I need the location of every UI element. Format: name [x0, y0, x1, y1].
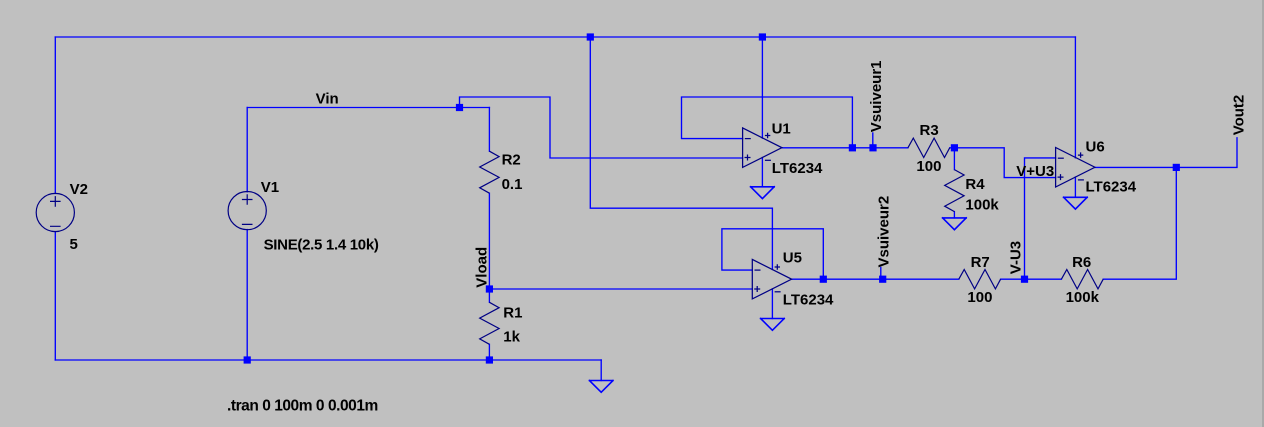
- wire U1 output to R3: [782, 147, 908, 149]
- ground R4: [943, 218, 967, 230]
- svg-text:V1: V1: [261, 179, 279, 196]
- svg-text:100: 100: [916, 158, 941, 175]
- svg-text:Vout2: Vout2: [1231, 95, 1248, 136]
- ground U1: [751, 187, 775, 199]
- resistor R3: [908, 138, 950, 157]
- node top rail junction U5 supply: [587, 33, 594, 40]
- node Vin junction: [456, 104, 463, 111]
- node U6 output junction: [1173, 164, 1180, 171]
- svg-text:100: 100: [967, 289, 992, 306]
- svg-text:U1: U1: [772, 120, 791, 137]
- op-amp U1: [743, 128, 782, 167]
- svg-text:V2: V2: [70, 181, 88, 198]
- node V-U3 junction: [1021, 276, 1028, 283]
- svg-text:U5: U5: [783, 249, 802, 266]
- wire R3 right lead to node: [950, 148, 1056, 178]
- svg-text:Vsuiveur2: Vsuiveur2: [876, 196, 893, 268]
- wire R2 bottom lead to Vload: [488, 193, 490, 289]
- wire U5 output to R7: [792, 278, 959, 280]
- svg-text:LT6234: LT6234: [1086, 179, 1137, 196]
- wire R1 bottom lead: [488, 344, 490, 360]
- svg-text:5: 5: [70, 236, 78, 253]
- wire Vin to U1 plus input: [460, 97, 743, 158]
- wire top supply rail: [55, 36, 1075, 38]
- node U5 output feedback junction: [820, 276, 827, 283]
- ground main rail: [589, 381, 613, 393]
- wire R1 top lead: [488, 289, 490, 302]
- wire R6 right lead up to U6 output: [1103, 167, 1176, 279]
- wire ground rail jog: [600, 360, 602, 381]
- svg-text:.tran 0 100m 0 0.001m: .tran 0 100m 0 0.001m: [227, 398, 378, 415]
- wire node V-U3 to R6: [1025, 278, 1062, 280]
- resistor R6: [1061, 270, 1103, 289]
- wire Vload row to U5 plus input: [489, 288, 752, 290]
- wire bottom ground rail: [55, 359, 601, 361]
- wire Vsuiveur1 label tick: [872, 133, 874, 148]
- wire V1 bottom lead: [246, 230, 248, 361]
- svg-text:Vsuiveur1: Vsuiveur1: [868, 60, 885, 132]
- wire U6 V+ pin: [1074, 37, 1076, 158]
- svg-text:0.1: 0.1: [502, 176, 523, 193]
- svg-text:LT6234: LT6234: [783, 291, 834, 308]
- wire R4 top lead: [953, 148, 955, 170]
- svg-text:R7: R7: [971, 254, 990, 271]
- wire U5 V+ supply route: [590, 37, 772, 269]
- svg-text:R6: R6: [1072, 254, 1091, 271]
- svg-text:100k: 100k: [965, 197, 999, 214]
- svg-text:V-U3: V-U3: [1008, 241, 1025, 274]
- wire R2 top lead: [488, 108, 490, 152]
- node Vsuiveur1 junction: [869, 144, 876, 151]
- svg-text:LT6234: LT6234: [772, 160, 823, 177]
- voltage source V1: [228, 192, 266, 230]
- svg-text:R1: R1: [503, 305, 522, 322]
- wire R7 right lead to node V-U3: [1001, 278, 1025, 280]
- wire Vsuiveur2 label tick: [880, 268, 882, 280]
- svg-text:100k: 100k: [1066, 289, 1100, 306]
- wire V1 top lead: [246, 108, 248, 192]
- window right edge: [1262, 0, 1264, 427]
- svg-text:U6: U6: [1086, 138, 1105, 155]
- wire U6 output to Vout2: [1095, 138, 1237, 168]
- op-amp U5: [752, 259, 791, 299]
- svg-text:R2: R2: [502, 152, 521, 169]
- wire node V-U3 up to U6 minus input: [1025, 158, 1056, 279]
- wire U6 V- pin: [1074, 177, 1076, 197]
- wire R4 bottom lead: [953, 212, 955, 218]
- node U1 output feedback junction: [849, 144, 856, 151]
- voltage source V2: [36, 193, 74, 231]
- node V1 bottom rail junction: [244, 356, 251, 363]
- ground U6: [1064, 197, 1088, 209]
- wire V2 bottom lead: [54, 232, 56, 360]
- wire U1 feedback loop: [682, 97, 853, 148]
- svg-text:R4: R4: [965, 176, 985, 193]
- resistor R7: [959, 270, 1001, 289]
- svg-text:R3: R3: [920, 122, 939, 139]
- svg-text:1k: 1k: [503, 328, 520, 345]
- node top rail junction U1 supply: [759, 33, 766, 40]
- node Vsuiveur2 junction: [879, 276, 886, 283]
- node R3 R4 junction: [951, 144, 958, 151]
- ground U5: [761, 319, 785, 331]
- node Vload junction: [486, 285, 493, 292]
- resistor R4: [945, 170, 964, 212]
- resistor R2: [480, 151, 499, 193]
- wire U1 V- pin: [761, 158, 763, 187]
- op-amp U6: [1056, 148, 1095, 188]
- wire V2 top lead: [54, 37, 56, 193]
- wire U5 feedback loop: [722, 229, 823, 279]
- wire U5 V- pin: [771, 289, 773, 319]
- wire Vin horizontal: [247, 107, 489, 109]
- node R1 bottom rail junction: [486, 356, 493, 363]
- resistor R1: [480, 302, 499, 344]
- wire U1 V+ pin: [761, 37, 763, 138]
- svg-text:Vin: Vin: [316, 91, 339, 108]
- svg-text:V+U3: V+U3: [1016, 163, 1054, 180]
- svg-text:Vload: Vload: [474, 247, 491, 288]
- svg-text:SINE(2.5 1.4 10k): SINE(2.5 1.4 10k): [264, 236, 379, 253]
